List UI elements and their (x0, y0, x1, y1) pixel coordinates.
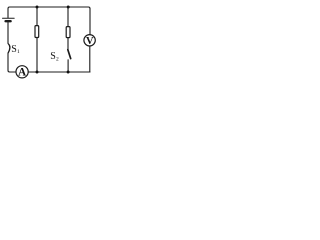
svg-text:1: 1 (17, 49, 20, 55)
voltmeter V circle (84, 35, 95, 46)
svg-text:2: 2 (56, 57, 59, 63)
resistor R2 (66, 27, 70, 38)
wire battery to switch S1 (7, 23, 9, 44)
node junction dot bottom branch1 (36, 71, 39, 74)
switch S2 blade (68, 50, 71, 59)
wire voltmeter to bottom rail (89, 46, 91, 72)
wire branch 1 lower (36, 38, 38, 73)
resistor R1 (35, 26, 39, 38)
wire S2 to bottom rail (67, 60, 69, 72)
wire bottom rail right of ammeter (28, 71, 90, 73)
node junction dot top branch1 (36, 6, 39, 9)
wire top-left leg and top rail (8, 7, 90, 18)
svg-text:A: A (18, 67, 27, 79)
switch S1 blade (8, 44, 10, 53)
node junction dot top branch2 (67, 6, 70, 9)
wire branch 2 upper (67, 7, 69, 27)
wire S1 to bottom-left corner (8, 53, 16, 72)
battery B short thick plate (6, 20, 11, 22)
wire R2 to switch S2 (67, 38, 69, 50)
ammeter A circle (16, 66, 28, 78)
wire branch 1 upper (36, 7, 38, 26)
svg-text:V: V (86, 36, 94, 47)
node junction dot bottom branch2 (67, 71, 70, 74)
wire right leg to voltmeter (89, 9, 91, 35)
battery B long plate (3, 17, 15, 19)
svg-text:S: S (50, 51, 56, 62)
svg-text:S: S (11, 44, 17, 55)
